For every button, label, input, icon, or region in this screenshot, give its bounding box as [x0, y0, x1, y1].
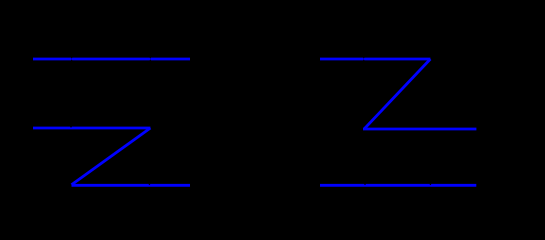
right diagram: lower energy level line [320, 184, 476, 187]
right diagram: middle energy level line [363, 128, 476, 131]
left diagram: middle energy level line [33, 127, 150, 130]
right diagram: upper energy level line [320, 58, 430, 61]
left diagram: lower energy level line [72, 184, 191, 187]
right diagram: diagonal transition line [365, 59, 431, 129]
left diagram: upper energy level line [33, 58, 190, 61]
left diagram: diagonal transition line [72, 128, 151, 185]
